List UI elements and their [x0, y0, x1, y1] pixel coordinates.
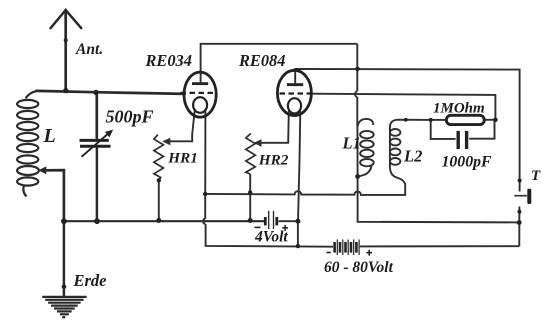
svg-text:Erde: Erde [73, 271, 107, 290]
svg-text:4Volt: 4Volt [254, 229, 288, 246]
svg-text:1MOhm: 1MOhm [433, 101, 485, 117]
svg-text:RE034: RE034 [145, 51, 192, 70]
svg-text:Ant.: Ant. [75, 41, 103, 58]
svg-text:L2: L2 [403, 147, 422, 166]
svg-text:500pF: 500pF [106, 107, 154, 127]
svg-text:1000pF: 1000pF [442, 153, 492, 170]
svg-text:HR2: HR2 [258, 152, 289, 169]
svg-text:RE084: RE084 [238, 51, 285, 70]
svg-text:L1: L1 [342, 133, 361, 152]
svg-text:HR1: HR1 [167, 149, 198, 166]
svg-text:60 - 80Volt: 60 - 80Volt [324, 259, 394, 276]
svg-text:T: T [531, 168, 541, 184]
svg-text:L: L [43, 125, 56, 147]
